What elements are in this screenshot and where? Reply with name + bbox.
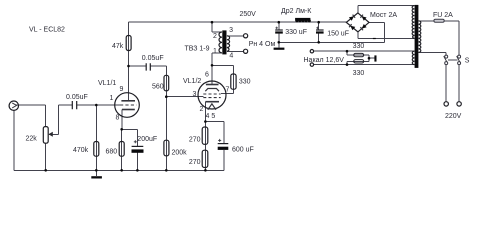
- svg-text:FU 2A: FU 2A: [433, 12, 453, 19]
- svg-text:6: 6: [205, 72, 209, 79]
- svg-text:Мост 2А: Мост 2А: [370, 12, 397, 19]
- svg-text:3: 3: [193, 91, 197, 98]
- svg-text:330 uF: 330 uF: [285, 29, 307, 36]
- svg-text:330: 330: [353, 43, 365, 50]
- svg-text:1: 1: [213, 48, 217, 55]
- svg-text:22k: 22k: [26, 136, 38, 143]
- svg-text:600 uF: 600 uF: [232, 146, 254, 153]
- svg-text:680: 680: [106, 148, 118, 155]
- svg-text:330: 330: [239, 78, 251, 85]
- svg-text:0.05uF: 0.05uF: [142, 55, 164, 62]
- svg-text:7: 7: [226, 87, 230, 94]
- svg-text:1: 1: [110, 95, 114, 102]
- svg-text:8: 8: [116, 115, 120, 122]
- svg-text:270: 270: [189, 137, 201, 144]
- svg-text:9: 9: [120, 86, 124, 93]
- svg-text:250V: 250V: [240, 11, 257, 18]
- svg-text:0.05uF: 0.05uF: [66, 94, 88, 101]
- svg-text:VL - ECL82: VL - ECL82: [29, 27, 65, 34]
- svg-text:Рн 4 Ом: Рн 4 Ом: [249, 41, 276, 48]
- svg-text:VL1/1: VL1/1: [98, 80, 116, 87]
- svg-text:Др2 Лм-К: Др2 Лм-К: [281, 8, 312, 15]
- svg-text:150 uF: 150 uF: [327, 31, 349, 38]
- svg-text:220V: 220V: [445, 113, 462, 120]
- svg-text:4: 4: [229, 53, 233, 60]
- svg-text:560: 560: [152, 83, 164, 90]
- svg-text:200uF: 200uF: [137, 136, 157, 143]
- svg-text:330: 330: [353, 70, 365, 77]
- svg-text:3: 3: [229, 27, 233, 34]
- svg-text:S: S: [465, 57, 470, 64]
- svg-text:4 5: 4 5: [206, 113, 216, 120]
- svg-text:2: 2: [213, 33, 217, 40]
- svg-text:2: 2: [200, 106, 204, 113]
- svg-text:47k: 47k: [112, 43, 124, 50]
- svg-text:200k: 200k: [172, 150, 188, 157]
- svg-text:VL1/2: VL1/2: [183, 78, 201, 85]
- svg-text:Накал 12,6V: Накал 12,6V: [304, 57, 345, 64]
- svg-text:270: 270: [189, 159, 201, 166]
- svg-text:470k: 470k: [73, 147, 89, 154]
- svg-text:ТВЗ 1-9: ТВЗ 1-9: [185, 46, 210, 53]
